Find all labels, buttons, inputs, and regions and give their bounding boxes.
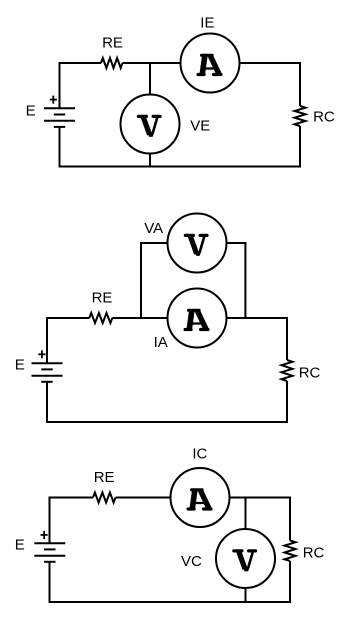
wire VA branch left: node up and to voltmeter xyxy=(141,243,168,318)
ammeter IE xyxy=(181,34,240,93)
svg-text:VC: VC xyxy=(181,553,202,570)
battery E (circuit 1) plate short xyxy=(54,114,65,116)
svg-text:E: E xyxy=(15,537,25,554)
wire ammeter to right corner down to RC, junction node for VC branch xyxy=(229,498,290,541)
wire left: battery positive up and across to RE xyxy=(50,498,94,544)
resistor RE (circuit 3) xyxy=(93,493,116,503)
svg-text:IA: IA xyxy=(154,334,168,351)
svg-text:E: E xyxy=(26,103,36,120)
wire voltmeter to bottom wire xyxy=(245,588,247,603)
resistor RE (circuit 2) xyxy=(89,313,112,323)
svg-text:VA: VA xyxy=(144,220,163,237)
wire bottom loop circuit 3 xyxy=(50,561,291,602)
wire left: battery positive up and across to RE xyxy=(47,318,89,363)
wire voltmeter to bottom wire xyxy=(149,153,151,167)
battery polarity plus sign (circuit 3) xyxy=(41,534,48,536)
voltmeter VE xyxy=(121,95,180,154)
wire RE to ammeter xyxy=(116,497,172,499)
svg-text:RC: RC xyxy=(299,364,321,381)
svg-text:IE: IE xyxy=(200,15,214,32)
svg-text:RE: RE xyxy=(102,34,123,51)
ammeter IC xyxy=(171,468,230,527)
wire VE branch: node on top wire down to voltmeter xyxy=(149,63,151,95)
wire VC branch: node on main wire down to voltmeter xyxy=(245,498,247,530)
voltmeter VC xyxy=(216,529,275,588)
battery E (circuit 1) plate long top xyxy=(44,107,75,109)
voltmeter VA xyxy=(168,214,227,273)
wire bottom loop: RC down, bottom, up to battery negative xyxy=(60,126,301,167)
svg-text:IC: IC xyxy=(192,445,207,462)
wire ammeter to top-right corner down to RC xyxy=(239,63,300,106)
battery E (circuit 2) plate long xyxy=(32,375,63,377)
svg-text:RC: RC xyxy=(303,545,325,562)
svg-text:RE: RE xyxy=(92,290,113,307)
resistor RC (circuit 1) xyxy=(295,106,306,126)
battery E (circuit 1) plate short bottom xyxy=(54,126,65,128)
wire ammeter to right corner down to RC, junction node for VA right branch xyxy=(226,318,287,360)
svg-text:RE: RE xyxy=(94,469,115,486)
battery E (circuit 3) plate long top xyxy=(34,542,65,544)
battery E (circuit 1) plate long xyxy=(44,120,75,122)
wire top-left: battery positive up and across to RE xyxy=(60,63,102,108)
svg-text:E: E xyxy=(15,357,25,374)
ammeter IA xyxy=(168,289,227,348)
resistor RC (circuit 2) xyxy=(282,360,293,381)
battery E (circuit 2) plate short xyxy=(41,368,52,370)
wire RE to ammeter, junction at node for VE branch xyxy=(123,62,182,64)
wire RE to ammeter, junction node for VA left branch xyxy=(112,317,168,319)
battery E (circuit 3) plate short xyxy=(44,548,55,550)
resistor RC (circuit 3) xyxy=(285,541,296,562)
resistor RE (circuit 1) xyxy=(101,58,123,68)
battery E (circuit 2) plate short bottom xyxy=(41,381,52,383)
wire VA branch right: voltmeter to node xyxy=(226,243,245,318)
battery E (circuit 3) plate short bottom xyxy=(44,561,55,563)
svg-text:RC: RC xyxy=(313,108,335,125)
wire bottom loop circuit 2 xyxy=(47,381,287,422)
battery E (circuit 2) plate long top xyxy=(32,362,63,364)
battery polarity plus sign (circuit 2) xyxy=(38,353,45,355)
battery polarity plus sign (circuit 1) xyxy=(50,99,57,101)
svg-text:VE: VE xyxy=(190,118,210,135)
battery E (circuit 3) plate long xyxy=(34,555,65,557)
